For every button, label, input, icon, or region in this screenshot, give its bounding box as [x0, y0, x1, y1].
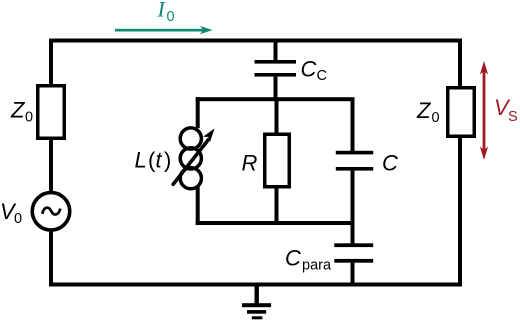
source V0	[32, 193, 70, 231]
inner tank: wire left lower	[196, 187, 200, 225]
svg-text:0: 0	[167, 9, 175, 25]
wire left lower	[49, 230, 53, 287]
wire left upper	[49, 39, 53, 85]
svg-text:C: C	[301, 57, 317, 82]
wire top	[49, 39, 462, 43]
voltage arrow VS	[480, 61, 488, 160]
inner tank: wire top	[196, 97, 355, 101]
svg-text:C: C	[317, 68, 327, 84]
capacitor CC	[255, 42, 297, 98]
inner tank: wire bottom	[196, 221, 355, 225]
svg-text:Z: Z	[10, 98, 26, 123]
resistor Z0 right	[448, 88, 475, 137]
svg-text:): )	[164, 148, 171, 173]
resistor R branch wire upper	[275, 101, 279, 134]
wire left middle	[49, 138, 53, 193]
inductor L(t) loops	[180, 128, 201, 189]
wire right lower	[458, 136, 462, 287]
svg-text:0: 0	[14, 211, 22, 227]
resistor R branch wire lower	[275, 187, 279, 221]
svg-text:S: S	[508, 109, 518, 125]
capacitor C branch wire upper	[351, 101, 355, 151]
ground	[242, 287, 271, 320]
capacitor C branch wire lower / Cpara stem upper	[351, 171, 355, 244]
inner tank: wire left upper	[196, 97, 200, 128]
svg-text:Z: Z	[416, 98, 432, 123]
svg-text:C: C	[285, 246, 301, 271]
capacitor C	[336, 151, 373, 171]
svg-text:0: 0	[25, 110, 33, 126]
wire bottom	[49, 283, 462, 287]
svg-text:R: R	[242, 151, 258, 176]
svg-text:para: para	[302, 258, 332, 274]
svg-text:L: L	[135, 148, 147, 173]
capacitor Cpara	[334, 243, 373, 262]
Cpara stem lower	[351, 263, 355, 285]
wire right upper	[458, 39, 462, 88]
resistor Z0 left	[38, 86, 65, 139]
svg-text:t: t	[156, 148, 163, 173]
current arrow I0	[115, 26, 213, 34]
inductor arrow	[173, 128, 214, 184]
resistor R	[265, 134, 290, 187]
svg-text:0: 0	[432, 110, 440, 126]
svg-text:C: C	[382, 151, 398, 176]
